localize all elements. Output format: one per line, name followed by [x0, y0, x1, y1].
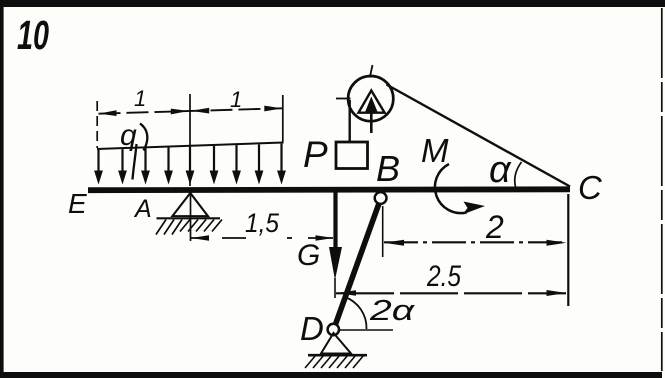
svg-text:α: α [489, 149, 512, 191]
svg-text:B: B [376, 148, 400, 189]
svg-text:G: G [297, 239, 320, 272]
svg-text:A: A [133, 195, 152, 223]
svg-text:2.5: 2.5 [426, 260, 461, 293]
svg-text:E: E [68, 188, 87, 219]
svg-text:1: 1 [230, 87, 242, 112]
svg-text:10: 10 [17, 12, 49, 58]
svg-text:D: D [300, 310, 324, 347]
svg-text:q: q [120, 119, 137, 152]
svg-text:2α: 2α [369, 295, 416, 327]
svg-text:1: 1 [134, 86, 146, 111]
svg-text:C: C [578, 169, 603, 206]
svg-text:M: M [421, 132, 449, 169]
svg-text:1,5: 1,5 [245, 208, 280, 238]
svg-text:2: 2 [485, 209, 504, 245]
svg-text:P: P [303, 134, 328, 175]
